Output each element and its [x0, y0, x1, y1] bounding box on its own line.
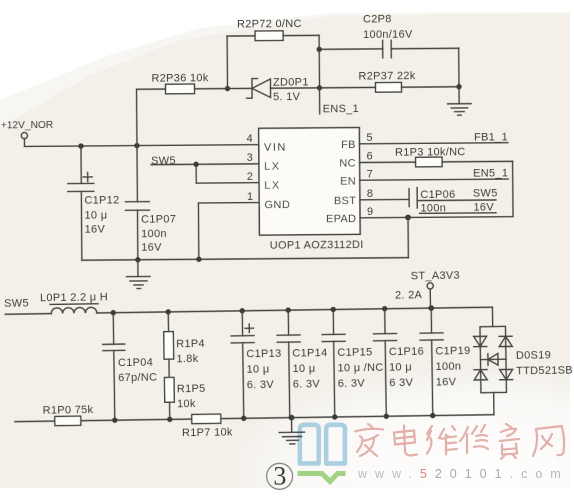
svg-text:4: 4	[246, 133, 253, 145]
svg-text:C1P19: C1P19	[435, 345, 470, 358]
wire EPAD net	[360, 217, 513, 218]
junction	[330, 307, 335, 312]
resistor R2P37	[319, 70, 459, 93]
svg-text:ENS_1: ENS_1	[323, 103, 359, 115]
wire R1P4 to R1P5	[168, 359, 170, 377]
svg-text:6. 3V: 6. 3V	[247, 379, 275, 391]
junction	[384, 414, 389, 419]
svg-text:10 μ: 10 μ	[84, 210, 107, 222]
inductor L0P1	[5, 291, 108, 314]
junction	[225, 86, 230, 91]
junction	[241, 416, 246, 421]
watermark book icon	[298, 425, 346, 482]
svg-text:C1P15: C1P15	[337, 346, 372, 359]
svg-text:SW5: SW5	[473, 187, 498, 199]
svg-text:67p/NC: 67p/NC	[118, 372, 157, 385]
resistor R1P0	[43, 404, 94, 426]
svg-text:10k: 10k	[177, 398, 196, 410]
svg-text:7: 7	[367, 168, 374, 180]
junction	[193, 162, 198, 167]
ground	[448, 87, 472, 116]
svg-text:6: 6	[367, 151, 374, 163]
ground	[126, 260, 150, 289]
svg-text:10 μ: 10 μ	[246, 363, 269, 375]
svg-text:+12V_NOR: +12V_NOR	[1, 120, 53, 131]
svg-text:C1P07: C1P07	[141, 213, 176, 225]
svg-text:FB: FB	[341, 139, 356, 151]
resistor R1P5	[164, 377, 206, 420]
junction	[430, 413, 435, 418]
junction	[428, 305, 434, 311]
svg-text:16V: 16V	[141, 242, 162, 254]
junction	[196, 257, 201, 262]
junction	[135, 257, 140, 262]
svg-text:UOP1 AOZ3112DI: UOP1 AOZ3112DI	[270, 239, 364, 252]
junction	[382, 306, 387, 311]
svg-text:16V: 16V	[436, 376, 457, 388]
junction	[289, 415, 295, 421]
svg-text:VIN: VIN	[264, 141, 287, 153]
junction	[167, 417, 172, 422]
svg-text:R2P36 10k: R2P36 10k	[151, 72, 208, 84]
junction	[332, 414, 337, 419]
junction	[456, 84, 461, 89]
junction	[165, 309, 170, 314]
resistor R1P3	[359, 146, 512, 168]
svg-text:C1P13: C1P13	[246, 348, 281, 361]
svg-text:EN5_1: EN5_1	[473, 167, 508, 179]
svg-text:C1P16: C1P16	[389, 346, 424, 359]
junction	[405, 215, 411, 221]
net FB1_1	[359, 131, 508, 144]
svg-text:LX: LX	[264, 161, 281, 173]
wire GND rail bottom	[15, 415, 494, 422]
junction	[285, 307, 290, 312]
svg-text:9: 9	[367, 206, 374, 218]
svg-text:6. 3V: 6. 3V	[338, 378, 366, 390]
wire +12V rail to VIN	[24, 145, 258, 147]
wire R1P3 return	[512, 161, 514, 216]
capacitor C1P16	[373, 308, 425, 416]
svg-text:R1P5: R1P5	[177, 383, 206, 395]
capacitor C1P06	[360, 187, 498, 215]
svg-text:www.520101.com: www.520101.com	[357, 467, 569, 481]
svg-text:ZD0P1: ZD0P1	[273, 76, 309, 88]
svg-text:LX: LX	[264, 179, 281, 191]
svg-text:EPAD: EPAD	[326, 213, 356, 225]
svg-text:R1P0 75k: R1P0 75k	[43, 404, 94, 417]
wire SW5 to LX pins	[151, 164, 259, 184]
junction	[316, 47, 321, 52]
svg-text:2: 2	[247, 171, 254, 183]
svg-text:ST_A3V3: ST_A3V3	[411, 270, 460, 283]
wire riser to R2P72	[226, 36, 228, 88]
junction	[110, 310, 115, 315]
svg-text:1: 1	[247, 191, 254, 203]
junction	[134, 143, 139, 148]
resistor R1P7	[182, 414, 233, 439]
svg-text:C2P8: C2P8	[363, 13, 392, 25]
resistor R2P72	[227, 18, 319, 41]
svg-text:16V: 16V	[473, 202, 494, 214]
svg-text:R1P7 10k: R1P7 10k	[182, 426, 233, 439]
svg-text:C1P04: C1P04	[118, 357, 153, 370]
capacitor C1P04	[102, 312, 158, 420]
svg-text:2. 2A: 2. 2A	[395, 289, 423, 301]
wire GND pin1	[198, 203, 259, 260]
svg-text:10 μ: 10 μ	[292, 363, 315, 375]
wire GND rail	[82, 258, 408, 261]
wire C2P8 to ground node	[458, 48, 460, 86]
svg-text:10 μ: 10 μ	[389, 361, 412, 373]
capacitor C2P8	[319, 13, 459, 59]
terminal ST_A3V3	[395, 270, 461, 309]
junction	[78, 143, 83, 148]
svg-text:C1P12: C1P12	[84, 194, 119, 206]
capacitor C1P14	[277, 310, 329, 418]
capacitor C1P07	[125, 145, 177, 260]
svg-text:L0P1 2.2 μ H: L0P1 2.2 μ H	[40, 291, 108, 304]
page number 3	[267, 462, 293, 491]
junction	[239, 308, 244, 313]
svg-text:100n/16V: 100n/16V	[363, 29, 413, 41]
junction	[112, 417, 117, 422]
svg-text:5. 1V: 5. 1V	[273, 91, 301, 103]
IC U0P1 AOZ3112DI	[246, 127, 373, 251]
capacitor C1P19	[420, 308, 472, 416]
diode array D0S19 TTD521SB	[473, 306, 573, 415]
wire EPAD to GND rail	[407, 217, 409, 257]
svg-text:EN: EN	[340, 175, 356, 187]
svg-text:R1P3 10k/NC: R1P3 10k/NC	[395, 146, 466, 159]
svg-text:SW5: SW5	[4, 297, 29, 309]
resistor R2P36	[136, 72, 227, 94]
terminal +12V_NOR	[1, 120, 54, 147]
svg-text:R1P4: R1P4	[176, 338, 205, 350]
svg-text:5: 5	[366, 132, 373, 144]
svg-text:D0S19: D0S19	[516, 349, 551, 362]
svg-text:6. 3V: 6. 3V	[293, 378, 321, 390]
svg-text:100n: 100n	[435, 361, 461, 373]
junction	[317, 85, 322, 90]
svg-text:100n: 100n	[141, 228, 167, 240]
svg-text:8: 8	[367, 188, 374, 200]
capacitor C1P13	[231, 310, 283, 418]
svg-text:1.8k: 1.8k	[176, 353, 198, 365]
resistor R1P4	[163, 311, 205, 365]
svg-text:R2P37 22k: R2P37 22k	[358, 70, 415, 82]
zener diode ZD0P1	[227, 76, 319, 103]
svg-text:3: 3	[247, 152, 254, 164]
watermark text 家电维修资料网	[355, 424, 564, 459]
ground	[279, 417, 305, 444]
svg-text:BST: BST	[334, 195, 356, 207]
svg-text:C1P06: C1P06	[420, 189, 455, 201]
wire SW5 rail	[97, 307, 493, 313]
svg-text:NC: NC	[339, 158, 356, 170]
capacitor C1P15	[322, 309, 385, 417]
svg-text:10 μ /NC: 10 μ /NC	[337, 362, 383, 375]
svg-text:6 3V: 6 3V	[389, 377, 413, 389]
wire riser to R2P36	[136, 89, 138, 145]
wire riser C2P8 node	[318, 35, 320, 87]
svg-text:3: 3	[273, 462, 286, 491]
svg-text:16V: 16V	[85, 224, 106, 236]
svg-text:C1P14: C1P14	[292, 347, 327, 360]
svg-text:GND: GND	[264, 199, 290, 211]
net EN5_1	[360, 167, 509, 180]
net ENS_1	[320, 88, 360, 116]
svg-text:R2P72 0/NC: R2P72 0/NC	[237, 18, 302, 31]
svg-text:FB1_1: FB1_1	[474, 131, 508, 143]
svg-text:100n: 100n	[420, 202, 446, 214]
capacitor C1P12	[67, 146, 120, 261]
svg-text:TTD521SB: TTD521SB	[516, 365, 573, 378]
